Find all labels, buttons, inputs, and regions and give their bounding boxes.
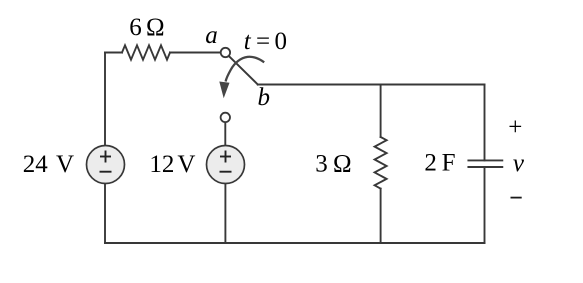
svg-text:6: 6 xyxy=(129,14,142,41)
svg-text:0: 0 xyxy=(275,28,288,55)
svg-text:12: 12 xyxy=(149,151,174,178)
svg-text:Ω: Ω xyxy=(333,150,352,177)
svg-text:F: F xyxy=(442,150,456,177)
svg-text:V: V xyxy=(177,151,195,178)
svg-text:24: 24 xyxy=(23,151,49,178)
svg-text:V: V xyxy=(56,151,74,178)
svg-text:a: a xyxy=(205,22,218,49)
svg-text:t: t xyxy=(244,28,252,55)
svg-text:Ω: Ω xyxy=(146,14,165,41)
svg-text:+: + xyxy=(508,114,522,141)
svg-text:=: = xyxy=(256,28,270,55)
svg-text:v: v xyxy=(513,150,525,177)
svg-text:2: 2 xyxy=(424,150,437,177)
svg-text:b: b xyxy=(258,84,271,111)
svg-text:3: 3 xyxy=(315,150,328,177)
